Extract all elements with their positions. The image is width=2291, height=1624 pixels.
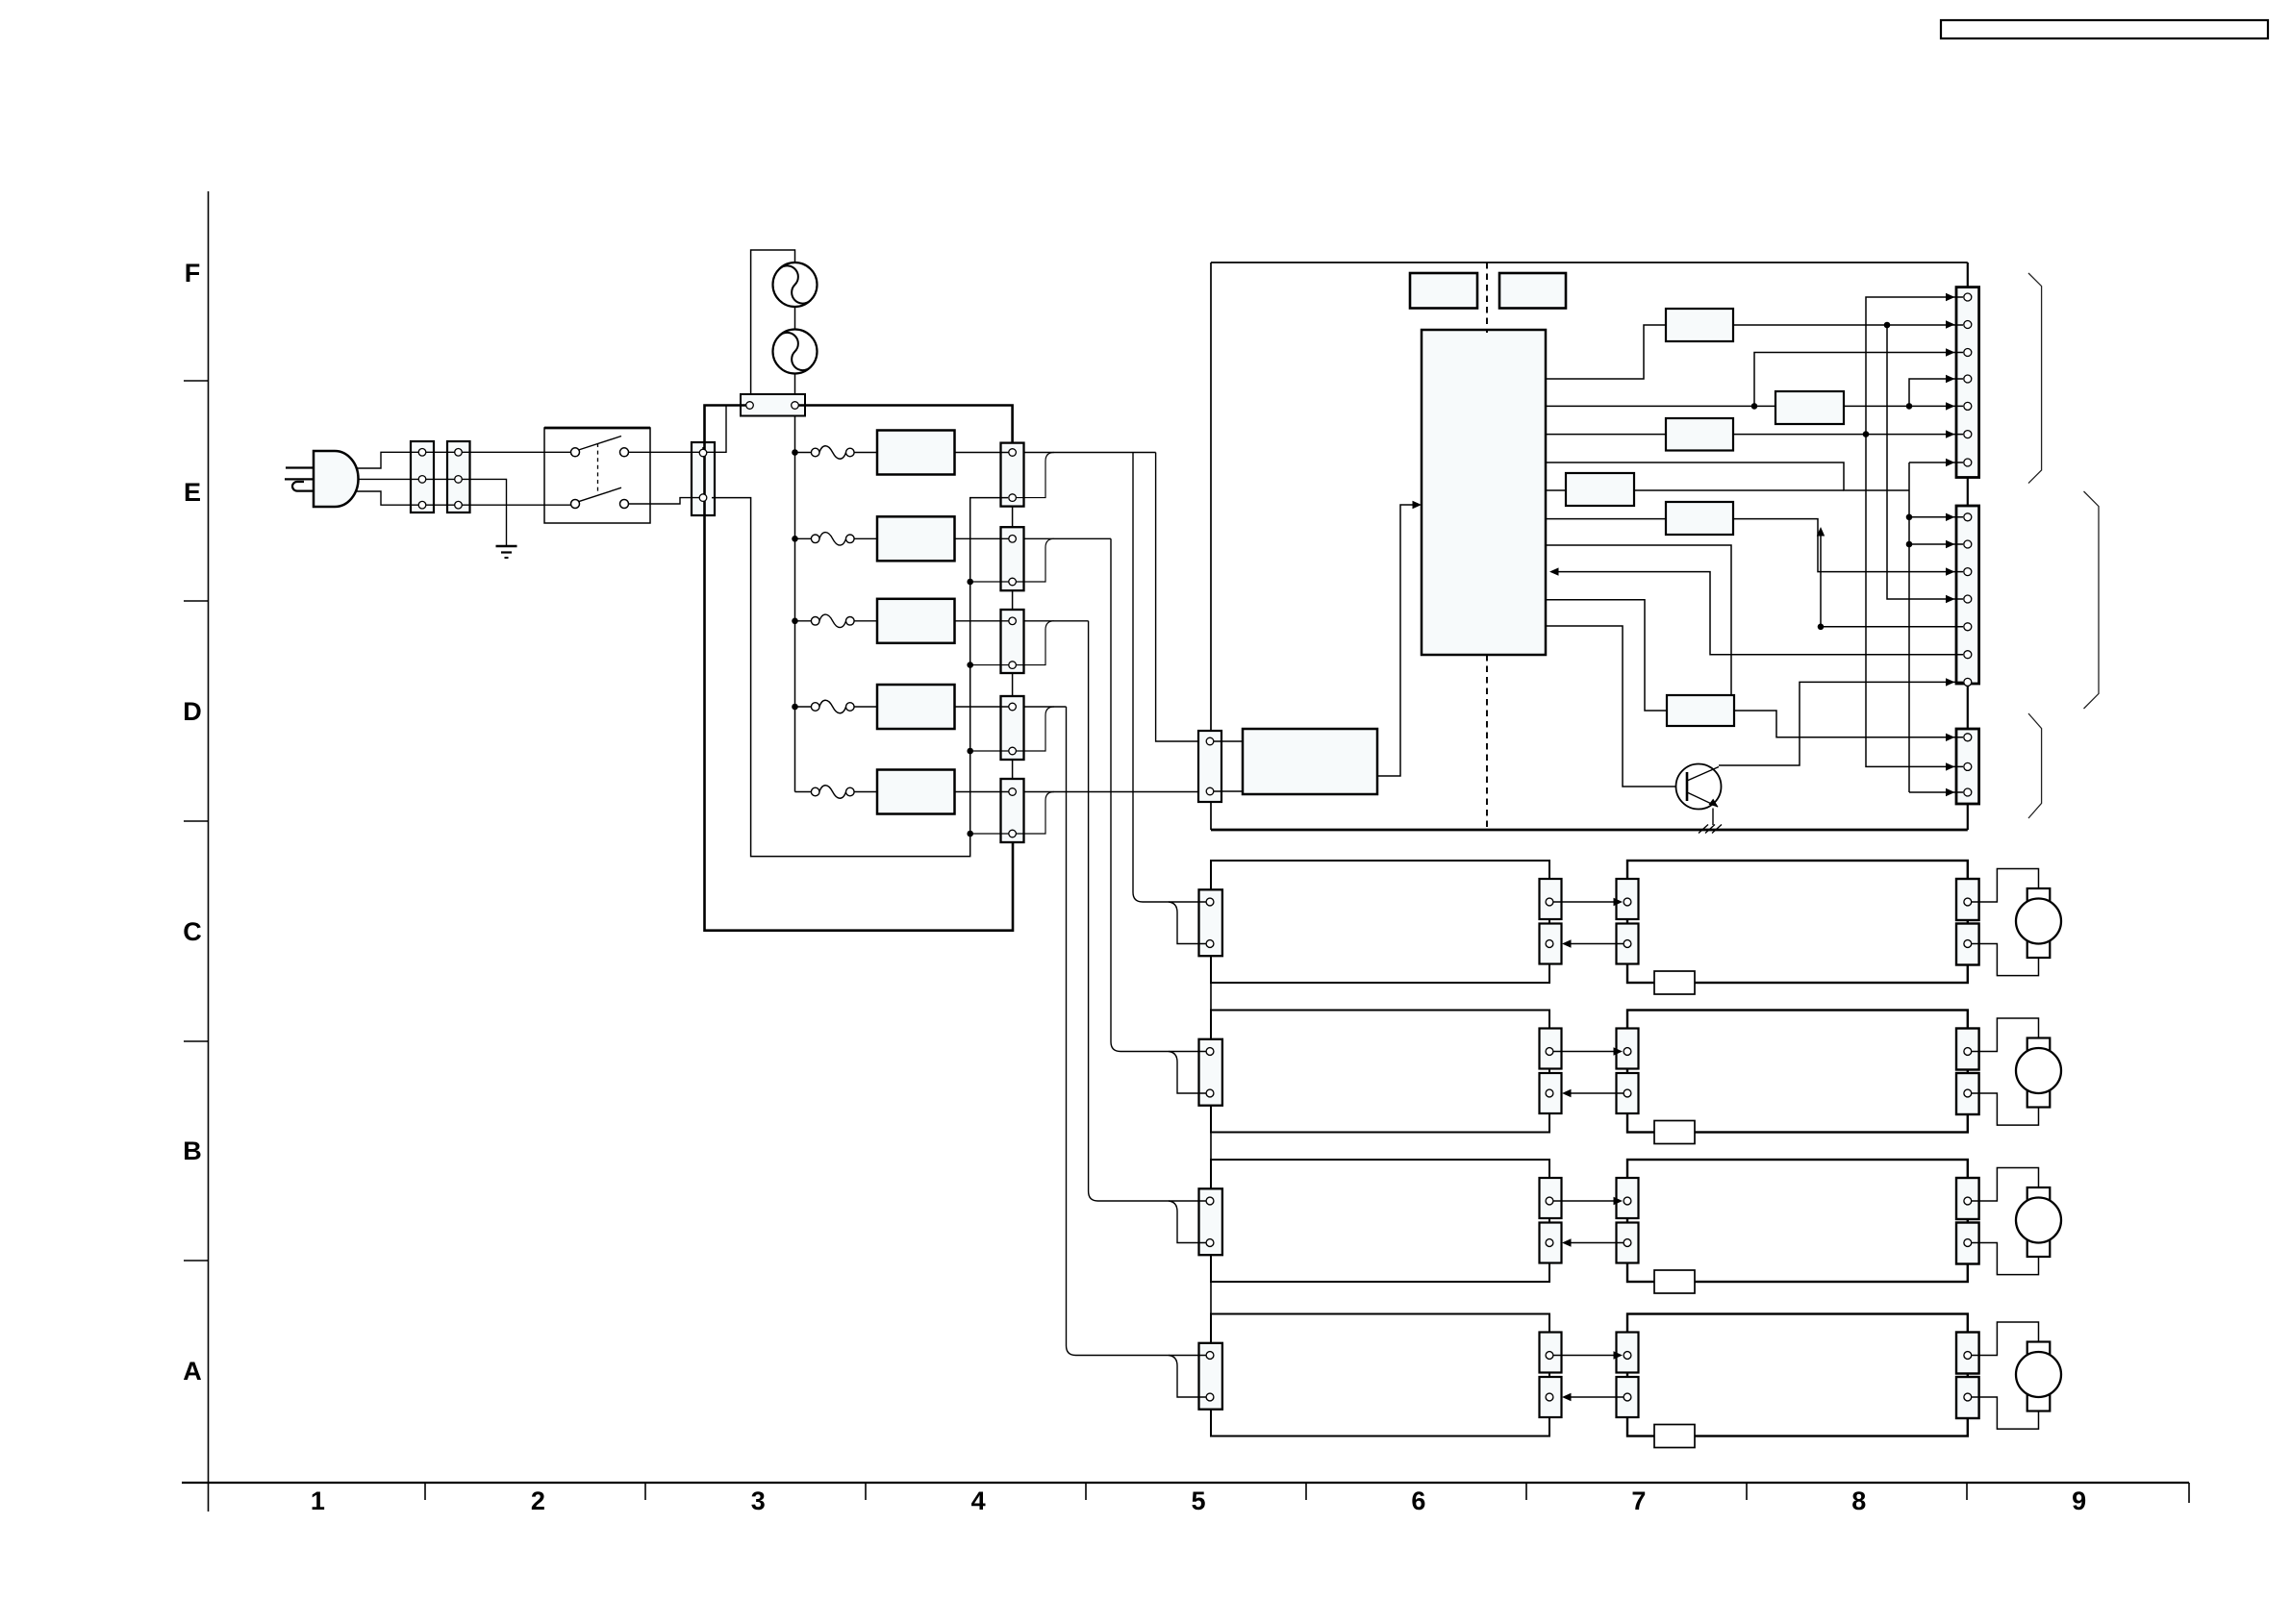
svg-text:3: 3 <box>751 1487 766 1515</box>
svg-text:A: A <box>183 1357 202 1386</box>
svg-text:B: B <box>183 1137 202 1165</box>
svg-text:8: 8 <box>1851 1487 1866 1515</box>
svg-text:2: 2 <box>531 1487 545 1515</box>
svg-text:9: 9 <box>2072 1487 2086 1515</box>
svg-text:E: E <box>184 478 201 507</box>
svg-text:1: 1 <box>311 1487 325 1515</box>
svg-text:5: 5 <box>1192 1487 1206 1515</box>
svg-text:6: 6 <box>1411 1487 1425 1515</box>
svg-text:C: C <box>183 917 202 946</box>
svg-text:D: D <box>183 697 202 726</box>
svg-text:4: 4 <box>971 1487 986 1515</box>
svg-text:F: F <box>185 259 201 287</box>
svg-text:7: 7 <box>1631 1487 1646 1515</box>
